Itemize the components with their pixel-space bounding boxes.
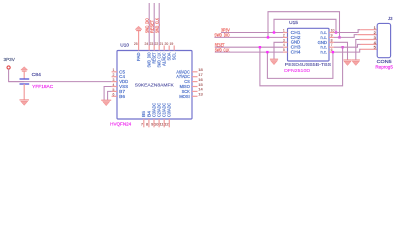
svg-text:19: 19 xyxy=(170,42,174,46)
svg-text:10: 10 xyxy=(331,29,335,33)
svg-text:3: 3 xyxy=(113,78,115,82)
svg-text:C0/ADC: C0/ADC xyxy=(167,103,172,117)
U10 pin 5 B7 xyxy=(112,90,117,92)
U10 pin 23 RESET xyxy=(153,46,155,51)
svg-text:U10: U10 xyxy=(120,43,129,48)
svg-text:J3: J3 xyxy=(388,16,393,21)
ground (U15 pin8) xyxy=(343,60,351,66)
junction xyxy=(267,36,269,38)
wire U15 pin7 to J3 pin4 xyxy=(334,44,361,47)
svg-text:DFN2510D: DFN2510D xyxy=(284,68,310,73)
U10 pin 22 SWD_CLK xyxy=(158,46,160,51)
svg-text:1: 1 xyxy=(113,68,115,72)
U15 pin 2 CH2 xyxy=(283,36,288,38)
mcu U10 body xyxy=(117,51,192,120)
U10 pin 11 C1/ADC xyxy=(163,119,165,127)
wire U15 pin8 to ground xyxy=(334,42,348,60)
svg-text:SWD_CLK: SWD_CLK xyxy=(155,17,160,33)
U10 pin 19 SCL xyxy=(173,46,175,51)
U10 pin 17 A7/ADC xyxy=(192,76,198,78)
svg-text:CON5: CON5 xyxy=(377,59,393,64)
svg-text:3P3V: 3P3V xyxy=(4,57,15,62)
svg-text:2: 2 xyxy=(283,33,285,37)
svg-text:25: 25 xyxy=(134,42,138,46)
wire VSS to ground xyxy=(104,87,112,101)
ground (left of U15) xyxy=(270,59,278,64)
capacitor C84 xyxy=(20,78,30,80)
U10 pin 20 SDA xyxy=(168,46,170,51)
wire net RESET xyxy=(153,3,155,46)
U10 pin 7 B5 xyxy=(143,119,145,127)
wire 3P3V to C84 xyxy=(9,69,25,81)
U10 pin 13 MOSI xyxy=(192,95,198,97)
U10 pin 16 CS xyxy=(192,81,198,83)
U10 pin 21 A1/ADC xyxy=(163,46,165,51)
U10 pin 14 SCK xyxy=(192,90,198,92)
wire U15 pin3 to ground xyxy=(274,42,283,59)
svg-text:S9KEAZN8AMFK: S9KEAZN8AMFK xyxy=(135,83,174,88)
U15 pin 6 n.c. xyxy=(329,51,334,53)
svg-text:U15: U15 xyxy=(289,20,298,25)
ground (below U10) xyxy=(101,100,111,106)
U10 pin 8 B4 xyxy=(148,119,150,127)
svg-text:9: 9 xyxy=(151,122,153,127)
ground (bottom of C84) xyxy=(19,100,29,106)
wire RESET to U15 CH3 xyxy=(215,46,283,48)
svg-text:6: 6 xyxy=(113,93,115,97)
svg-text:4: 4 xyxy=(283,43,285,47)
svg-text:n.c.: n.c. xyxy=(321,50,328,55)
J3 pin 5 xyxy=(361,48,377,50)
wire C84 bottom lead xyxy=(23,84,25,100)
U10 pin 3 VDD xyxy=(112,81,117,83)
svg-text:SCL: SCL xyxy=(172,52,177,60)
wire 3P3V to U15 CH1 xyxy=(221,32,283,34)
svg-text:9: 9 xyxy=(331,33,333,37)
ground (J3 pin3) xyxy=(352,60,360,66)
U15 pin 9 n.c. xyxy=(329,36,334,38)
U15 pin 8 GND xyxy=(329,41,334,43)
U10 pin 24 SWD_DIO xyxy=(148,46,150,51)
junction xyxy=(259,46,261,48)
svg-text:PAD: PAD xyxy=(136,53,141,62)
wire SWD_CLK to U15 CH4 xyxy=(215,51,283,53)
wire loop CH4 bottom xyxy=(267,52,333,78)
svg-text:20: 20 xyxy=(165,42,169,46)
svg-text:B6: B6 xyxy=(119,94,125,99)
svg-text:4: 4 xyxy=(113,83,115,87)
wire 3P3V rail to U10 xyxy=(9,81,112,83)
U10 pin 2 C4 xyxy=(112,76,117,78)
svg-text:YFF18AC: YFF18AC xyxy=(32,84,53,89)
svg-text:SWD_CLK: SWD_CLK xyxy=(215,47,230,52)
svg-text:11: 11 xyxy=(159,122,163,127)
U15 pin 5 CH4 xyxy=(283,51,288,53)
U10 pin 15 MISO xyxy=(192,86,198,88)
junction xyxy=(332,51,334,53)
wire U15 pin9 to J3 pin2 xyxy=(334,35,358,38)
U15 pin 1 CH1 xyxy=(283,32,288,34)
junction xyxy=(273,31,275,33)
svg-text:22: 22 xyxy=(155,42,159,46)
svg-text:C84: C84 xyxy=(32,72,42,77)
svg-text:7: 7 xyxy=(331,43,333,47)
ground (top of C84) xyxy=(21,67,28,71)
wire net SWD_CLK xyxy=(158,3,160,46)
svg-text:12: 12 xyxy=(164,122,168,127)
wire U15 pin6 to J3 pin5 xyxy=(334,49,361,52)
connector J3 body xyxy=(377,23,390,57)
svg-text:HVQFN24: HVQFN24 xyxy=(110,122,131,127)
esd array U15 body xyxy=(288,28,330,61)
power arrow on PAD pin xyxy=(138,31,140,46)
U10 pin 1 C5 xyxy=(112,71,117,73)
U15 pin 4 CH3 xyxy=(283,46,288,48)
svg-text:5: 5 xyxy=(113,88,115,92)
svg-text:SWD_DIO: SWD_DIO xyxy=(214,32,230,37)
wire U15 pin10 to J3 pin1 xyxy=(334,30,360,33)
svg-text:Reprog5: Reprog5 xyxy=(375,64,393,69)
wire loop CH3 bottom xyxy=(260,47,343,86)
wire SWD_DIO to U15 CH2 xyxy=(214,36,283,38)
U10 pin 10 C2/ADC xyxy=(158,119,160,127)
junction xyxy=(266,51,268,53)
J3 pin 1 xyxy=(360,29,376,31)
U10 pin 12 C0/ADC xyxy=(168,119,170,127)
svg-text:2: 2 xyxy=(113,73,115,77)
wire C84 top lead xyxy=(23,71,25,79)
U15 pin 3 GND xyxy=(283,41,288,43)
U10 pin 18 A6/ADC xyxy=(192,71,198,73)
svg-text:MOSI: MOSI xyxy=(179,94,190,99)
J3 pin 2 xyxy=(358,34,377,36)
svg-text:21: 21 xyxy=(160,42,164,46)
svg-text:8: 8 xyxy=(146,122,148,127)
U10 pin 6 B6 xyxy=(112,95,117,97)
junction xyxy=(338,36,340,38)
wire net SWD_DIO xyxy=(148,3,150,46)
wire J3 pin3 to ground xyxy=(356,40,360,61)
svg-text:8: 8 xyxy=(331,38,333,42)
svg-text:3: 3 xyxy=(283,38,285,42)
U15 pin 10 n.c. xyxy=(329,32,334,34)
U10 pin 9 C3/ADC xyxy=(153,119,155,127)
J3 pin 3 xyxy=(360,39,377,41)
svg-text:7: 7 xyxy=(141,122,143,127)
junction xyxy=(335,31,337,33)
U10 pin 4 VSS xyxy=(112,86,117,88)
U10 pin 25 PAD xyxy=(138,46,140,51)
wire loop CH1 to pin10 xyxy=(274,19,336,32)
svg-text:24: 24 xyxy=(145,42,149,46)
svg-text:5: 5 xyxy=(283,48,285,52)
J3 pin 4 xyxy=(361,43,377,45)
wire loop CH2 to pin9 xyxy=(268,12,340,38)
svg-text:CH4: CH4 xyxy=(291,50,301,55)
svg-text:PESD4USB5B-TBS: PESD4USB5B-TBS xyxy=(285,62,332,67)
svg-text:13: 13 xyxy=(198,92,203,97)
svg-text:23: 23 xyxy=(150,42,154,46)
U15 pin 7 n.c. xyxy=(329,46,334,48)
junction xyxy=(341,46,343,48)
wire B7 to ground xyxy=(108,91,112,100)
svg-text:1: 1 xyxy=(283,29,285,33)
